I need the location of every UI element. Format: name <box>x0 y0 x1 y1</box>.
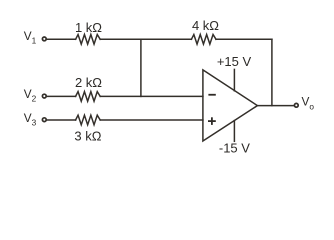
resistor R2 4 kOhm <box>191 35 216 45</box>
svg-text:V2: V2 <box>24 87 37 104</box>
wire <box>100 95 203 97</box>
wire feedback vertical <box>271 39 273 105</box>
svg-text:2 kΩ: 2 kΩ <box>75 75 102 90</box>
op-amp non-inverting input symbol <box>208 120 216 122</box>
resistor R4 3 kOhm <box>76 115 101 125</box>
svg-text:Vo: Vo <box>302 95 315 112</box>
svg-text:-15 V: -15 V <box>219 140 250 155</box>
wire <box>216 38 272 40</box>
node V3 input terminal <box>42 118 46 122</box>
svg-text:V1: V1 <box>24 29 37 46</box>
wire -15V supply <box>233 121 235 142</box>
wire <box>100 119 203 121</box>
svg-text:1 kΩ: 1 kΩ <box>75 20 102 35</box>
node V2 input terminal <box>42 94 46 98</box>
op-amp U1 <box>203 70 258 141</box>
wire <box>47 38 76 40</box>
wire <box>100 38 191 40</box>
resistor R1 1 kOhm <box>76 35 101 45</box>
svg-text:4 kΩ: 4 kΩ <box>192 18 219 33</box>
wire <box>47 119 76 121</box>
wire +15V supply <box>233 69 235 90</box>
svg-text:V3: V3 <box>24 111 37 128</box>
svg-text:+15 V: +15 V <box>217 54 252 69</box>
op-amp inverting input symbol <box>208 94 215 96</box>
wire <box>47 95 76 97</box>
wire node A vertical <box>140 39 142 96</box>
wire output <box>257 105 293 107</box>
svg-text:3 kΩ: 3 kΩ <box>74 129 101 144</box>
node Vo output terminal <box>294 103 298 107</box>
resistor R3 2 kOhm <box>76 92 101 102</box>
node V1 input terminal <box>42 37 46 41</box>
